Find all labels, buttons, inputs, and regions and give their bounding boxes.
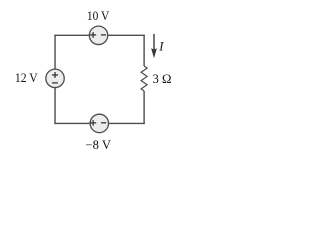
wire left (top-left corner to bottom-left corner) (54, 35, 56, 124)
svg-text:I: I (158, 39, 164, 53)
voltage source V3 -8V (bottom) circle (90, 114, 108, 132)
svg-text:10 V: 10 V (87, 9, 109, 23)
V1 minus sign (101, 34, 106, 36)
current arrow I head (151, 48, 157, 58)
wire bottom (bottom-left corner to bottom-right corner) (54, 122, 144, 124)
V1 plus sign (90, 32, 96, 38)
svg-text:3 Ω: 3 Ω (153, 72, 172, 86)
V3 plus sign (90, 120, 96, 126)
resistor R1 3-ohm zigzag (141, 66, 147, 91)
V2 plus sign (52, 72, 58, 78)
V3 minus sign (101, 122, 106, 124)
wire top (top-left corner to top-right corner) (54, 34, 144, 36)
V2 minus sign (52, 82, 58, 84)
voltage source V1 10V (top) circle (89, 26, 107, 44)
wire right lower (resistor down to bottom-right corner) (143, 91, 145, 124)
svg-text:12 V: 12 V (15, 71, 38, 85)
svg-text:−8 V: −8 V (86, 138, 112, 152)
current arrow I shaft (153, 34, 155, 52)
voltage source V2 12V (left) circle (46, 69, 64, 87)
wire right upper (top-right corner down to resistor) (143, 35, 145, 66)
